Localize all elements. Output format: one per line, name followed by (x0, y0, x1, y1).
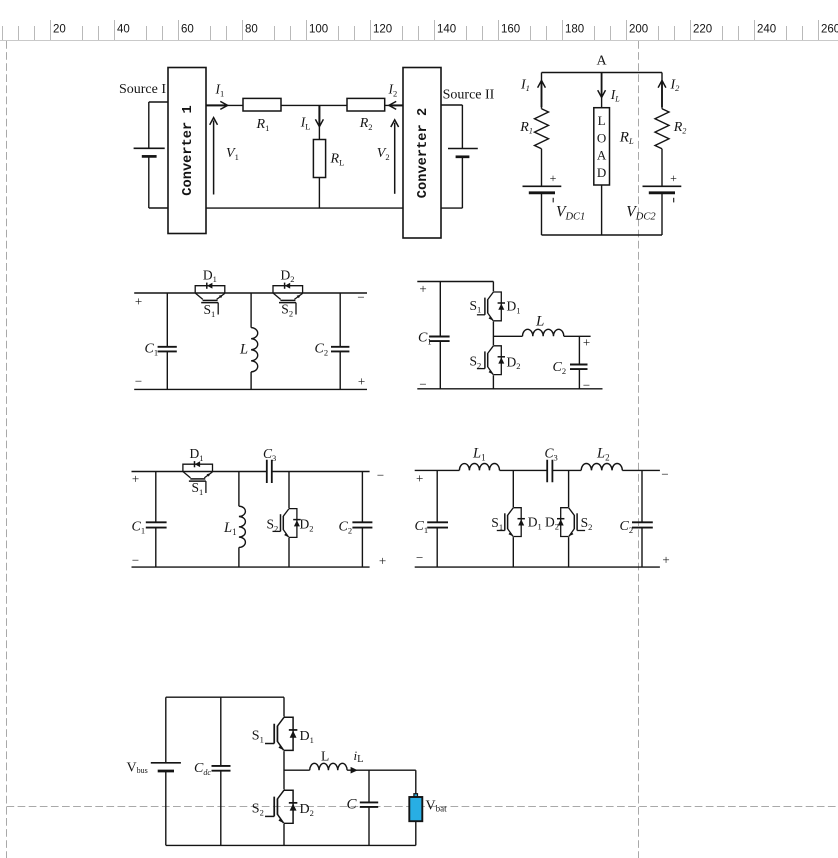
svg-text:−: − (416, 550, 423, 565)
svg-text:+: + (550, 171, 557, 185)
svg-text:D2: D2 (545, 515, 559, 532)
svg-text:−: − (132, 553, 139, 568)
svg-text:L: L (239, 342, 248, 358)
svg-text:260: 260 (821, 24, 838, 36)
svg-text:C2: C2 (553, 360, 567, 376)
svg-text:S2: S2 (581, 515, 593, 532)
svg-text:−: − (357, 290, 364, 305)
svg-text:L: L (535, 314, 544, 330)
svg-text:Vbus: Vbus (127, 761, 148, 776)
svg-text:160: 160 (501, 24, 520, 36)
svg-text:I1: I1 (520, 78, 530, 94)
svg-text:O: O (597, 130, 606, 145)
svg-text:IL: IL (300, 115, 311, 132)
svg-text:L1: L1 (223, 520, 237, 537)
svg-text:D2: D2 (300, 517, 314, 534)
svg-text:120: 120 (373, 24, 392, 36)
svg-text:+: + (662, 552, 669, 567)
svg-text:L: L (321, 749, 329, 764)
svg-text:C3: C3 (545, 446, 558, 463)
svg-text:+: + (583, 334, 590, 349)
svg-text:I2: I2 (388, 82, 398, 99)
svg-text:Converter 2: Converter 2 (416, 108, 431, 198)
svg-text:40: 40 (117, 24, 130, 36)
svg-text:I2: I2 (670, 78, 681, 94)
svg-text:+: + (419, 281, 426, 296)
svg-text:A: A (597, 54, 608, 69)
svg-text:C3: C3 (263, 446, 276, 463)
svg-text:D2: D2 (300, 802, 314, 818)
svg-text:V2: V2 (377, 146, 390, 162)
svg-text:240: 240 (757, 24, 776, 36)
svg-text:A: A (597, 148, 607, 163)
svg-text:140: 140 (437, 24, 456, 36)
svg-text:220: 220 (693, 24, 712, 36)
svg-text:+: + (358, 374, 365, 389)
svg-text:IL: IL (610, 87, 621, 104)
svg-text:L1: L1 (472, 446, 486, 463)
svg-text:S2: S2 (470, 354, 482, 371)
svg-text:Vbat: Vbat (426, 799, 448, 814)
svg-text:D1: D1 (300, 729, 314, 745)
svg-text:VDC1: VDC1 (556, 204, 585, 223)
svg-text:RL: RL (330, 152, 345, 168)
svg-text:−: − (419, 377, 426, 392)
svg-text:V1: V1 (226, 146, 239, 162)
svg-text:−: − (661, 467, 668, 482)
svg-text:+: + (670, 171, 677, 185)
svg-text:S2: S2 (281, 302, 293, 319)
svg-text:100: 100 (309, 24, 328, 36)
svg-text:200: 200 (629, 24, 648, 36)
svg-text:20: 20 (53, 24, 66, 36)
svg-text:R1: R1 (519, 120, 533, 136)
svg-text:D1: D1 (507, 299, 521, 316)
svg-text:Cdc: Cdc (194, 761, 211, 777)
svg-text:−: − (583, 377, 590, 392)
svg-text:S1: S1 (204, 302, 216, 319)
svg-text:+: + (379, 553, 386, 568)
svg-text:RL: RL (619, 130, 634, 147)
svg-text:S1: S1 (470, 298, 482, 315)
svg-text:+: + (132, 471, 139, 486)
svg-text:C2: C2 (339, 520, 353, 536)
svg-text:S1: S1 (192, 480, 204, 497)
svg-text:iL: iL (354, 748, 364, 765)
svg-text:R1: R1 (256, 117, 270, 133)
svg-text:VDC2: VDC2 (626, 204, 656, 223)
svg-text:D1: D1 (528, 515, 542, 532)
svg-text:D1: D1 (203, 267, 217, 284)
svg-text:S1: S1 (491, 515, 503, 532)
svg-text:S1: S1 (252, 729, 264, 745)
svg-text:I1: I1 (215, 82, 225, 99)
svg-text:D: D (597, 165, 606, 180)
svg-text:C2: C2 (315, 342, 329, 358)
svg-text:80: 80 (245, 24, 258, 36)
svg-text:−: − (135, 374, 142, 389)
svg-text:C1: C1 (415, 519, 429, 535)
svg-text:Source II: Source II (443, 88, 495, 103)
svg-text:C1: C1 (132, 520, 146, 536)
svg-text:Source I: Source I (119, 82, 166, 97)
svg-text:60: 60 (181, 24, 194, 36)
svg-text:C2: C2 (620, 519, 634, 535)
svg-text:D1: D1 (190, 446, 204, 463)
svg-text:180: 180 (565, 24, 584, 36)
svg-text:L: L (598, 113, 606, 128)
svg-text:D2: D2 (507, 354, 521, 371)
svg-text:Converter 1: Converter 1 (181, 105, 196, 195)
svg-text:S2: S2 (252, 802, 264, 818)
svg-text:+: + (135, 294, 142, 309)
svg-text:−: − (377, 468, 384, 483)
svg-text:R2: R2 (359, 116, 373, 132)
svg-text:R2: R2 (673, 120, 687, 136)
svg-text:S2: S2 (267, 517, 279, 534)
svg-text:L2: L2 (596, 446, 610, 463)
svg-text:C1: C1 (418, 331, 432, 347)
svg-text:C: C (347, 797, 358, 813)
svg-text:D2: D2 (281, 267, 295, 284)
svg-text:C1: C1 (145, 342, 159, 358)
svg-text:+: + (416, 471, 423, 486)
